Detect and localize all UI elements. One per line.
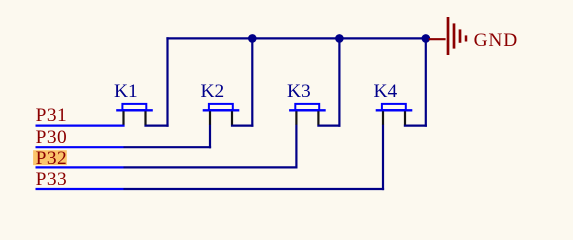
svg-text:P33: P33	[36, 169, 68, 190]
wire riser K1 to rail	[166, 37, 168, 126]
ground	[429, 17, 466, 55]
push button K1	[116, 104, 153, 125]
wire net P30 blue segment	[36, 146, 124, 148]
svg-text:K4: K4	[374, 81, 398, 102]
wire K3 left pin drop	[295, 125, 297, 169]
wire top rail	[166, 37, 426, 39]
wire riser K3 to rail	[338, 37, 340, 126]
wire net P30 navy segment	[124, 146, 212, 148]
svg-text:K3: K3	[287, 81, 311, 102]
wire K1 right lead	[144, 124, 168, 126]
wire net P33 navy segment	[124, 188, 385, 190]
push button K3	[289, 104, 326, 125]
junction dot at K4 riser / GND	[422, 34, 431, 43]
wire net P33 blue segment	[36, 188, 124, 190]
wire K3 right lead	[317, 124, 340, 126]
wire K4 left pin drop	[382, 125, 384, 191]
svg-text:P30: P30	[36, 127, 68, 148]
junction dot at K2 riser	[248, 34, 257, 43]
wire net P32 navy segment	[124, 166, 298, 168]
svg-text:K1: K1	[114, 81, 138, 102]
wire K2 right lead	[231, 124, 254, 126]
wire net P32 blue segment	[36, 166, 124, 168]
wire net P31	[36, 124, 125, 126]
wire riser K2 to rail	[251, 37, 253, 126]
wire riser K4 to rail	[425, 37, 427, 126]
push button K2	[203, 104, 240, 125]
svg-text:P31: P31	[36, 105, 68, 126]
svg-text:GND: GND	[474, 30, 518, 51]
wire K4 right lead	[404, 124, 427, 126]
net label P32 highlight	[33, 150, 67, 165]
wire K2 left pin drop	[209, 125, 211, 149]
svg-text:P32: P32	[36, 148, 68, 169]
push button K4	[376, 104, 413, 125]
junction dot at K3 riser	[335, 34, 344, 43]
svg-text:K2: K2	[201, 81, 225, 102]
